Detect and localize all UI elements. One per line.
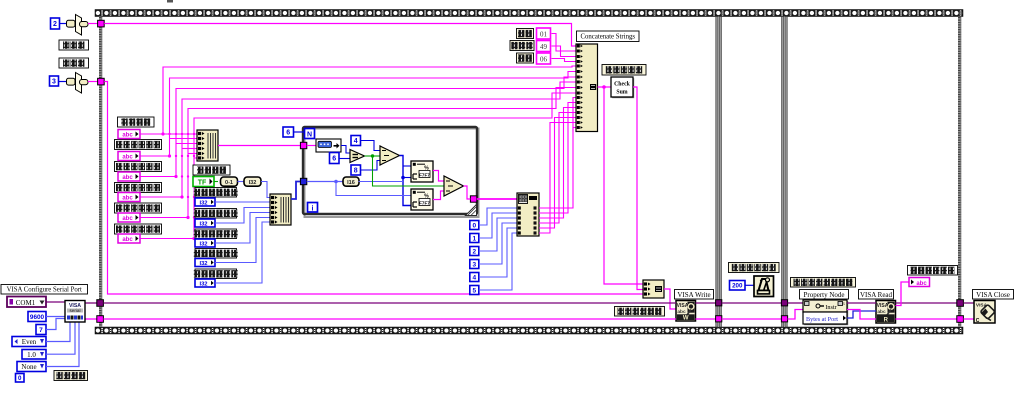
svg-text:abc: abc <box>122 195 133 201</box>
numeric constant 2 <box>51 18 60 29</box>
svg-text:0-1: 0-1 <box>225 180 233 186</box>
svg-text:abc: abc <box>122 154 133 160</box>
wire fan branch 1 to concatenate <box>161 66 576 136</box>
svg-text:3: 3 <box>52 79 56 86</box>
wire abc2 to build-array1 <box>140 139 198 157</box>
loop iteration terminal i <box>308 203 318 213</box>
svg-text:TF: TF <box>198 180 207 187</box>
wire index-array out 5 to concatenate <box>539 118 577 229</box>
wire read string to indicator <box>896 282 910 306</box>
wire start code to concatenate row1 <box>104 24 576 47</box>
numeric constant 3 <box>470 260 479 269</box>
label end code 結束碼 <box>59 58 89 68</box>
numeric constant 0 <box>470 221 479 230</box>
loop tunnel string out <box>470 196 476 202</box>
to I16 conversion <box>343 177 359 186</box>
svg-text:2: 2 <box>472 248 476 255</box>
wire build-array1 to loop tunnel <box>218 145 301 147</box>
svg-text:C: C <box>976 318 980 324</box>
svg-text:VISA Write: VISA Write <box>677 291 710 299</box>
tunnel VISA right edge <box>957 300 964 307</box>
svg-text:2: 2 <box>53 21 57 28</box>
select function 2 <box>444 176 464 196</box>
flat sequence right edge <box>958 17 961 328</box>
svg-text:9600: 9600 <box>30 314 45 321</box>
numeric constant 3 <box>50 76 59 86</box>
wire fan branch 2 to concatenate <box>168 72 577 158</box>
to I32 conversion <box>244 177 261 186</box>
wire VISA read to right tunnel <box>896 302 959 304</box>
wire checksum output down to small concatenate <box>633 87 644 290</box>
boolean to (0,1) conversion <box>221 177 238 186</box>
wire VISA across frame2 <box>722 302 782 304</box>
label 暫存器號碼3 <box>115 183 162 193</box>
svg-text:COM1: COM1 <box>16 299 36 307</box>
label 暫存器資料4 <box>194 249 238 259</box>
label 站號 <box>517 29 534 39</box>
tunnel error left <box>97 316 104 323</box>
concatenate strings node <box>576 44 598 132</box>
numeric control I32 #2 <box>195 219 215 227</box>
tunnel end code <box>98 78 105 85</box>
wire stub to hex upper in1 <box>403 165 411 167</box>
string control abc 1 <box>118 130 140 139</box>
wire fan branch 3 to concatenate <box>174 77 576 178</box>
svg-text:7: 7 <box>39 327 43 334</box>
wire string-length to equals <box>341 146 350 154</box>
wire abc3 to build-array1 <box>140 144 198 177</box>
wire cast2 to tunnel (end code) <box>88 81 98 83</box>
tunnel error divider1 <box>716 316 722 322</box>
wire cast1 to tunnel (start code) <box>88 23 98 25</box>
svg-text:R: R <box>884 317 889 323</box>
string constant 06 <box>537 53 551 64</box>
svg-text:None: None <box>21 363 36 371</box>
tunnel start code <box>98 20 105 27</box>
svg-text:VISA Configure Serial Port: VISA Configure Serial Port <box>7 287 82 294</box>
svg-text:0: 0 <box>472 222 476 229</box>
svg-text:i: i <box>312 205 314 212</box>
select function 1 <box>380 146 400 165</box>
wire I16 output <box>359 181 404 183</box>
numeric control I32 #5 <box>195 279 215 287</box>
svg-text:I16: I16 <box>347 180 355 186</box>
numeric constant 0 (bottom) <box>16 374 25 383</box>
wire bytes-at-port to VISA Read <box>847 311 876 318</box>
wire I32-3 to build-array2 <box>215 213 271 244</box>
svg-text:VISA: VISA <box>877 303 889 309</box>
flat sequence left edge <box>99 17 102 328</box>
wire 6 to equals <box>339 158 350 160</box>
label 暫存器資料5 <box>194 269 238 279</box>
svg-text:abc: abc <box>122 175 133 181</box>
svg-text:I32: I32 <box>199 261 207 267</box>
svg-text:Property Node: Property Node <box>803 291 844 299</box>
tunnel error divider2 <box>781 316 787 322</box>
svg-text:I32: I32 <box>199 281 207 287</box>
wire end code down-and-right to small concatenate <box>104 82 643 295</box>
type cast function 2 <box>67 73 89 94</box>
wire VISA divider2 to property node <box>788 302 803 304</box>
numeric control I32 #4 <box>195 259 215 267</box>
label 寫入命令字串 <box>615 307 665 317</box>
wire constant-2 to cast <box>60 23 68 25</box>
wire error across frame2 <box>722 318 782 320</box>
wire error divider2 to property node <box>788 310 803 320</box>
wire array element to I16 <box>307 180 343 184</box>
wire index-array out 1 to concatenate <box>539 98 577 209</box>
enum constant Even <box>12 337 46 347</box>
wire VISA resource COM1 to configure <box>46 301 65 303</box>
concatenate strings node small <box>643 280 664 298</box>
index array node <box>517 193 539 236</box>
wait ms subVI (metronome) <box>754 276 774 297</box>
svg-text:1: 1 <box>472 235 476 242</box>
svg-text:6: 6 <box>332 156 336 163</box>
svg-text:6: 6 <box>286 130 290 137</box>
wire constant-3 to cast <box>59 81 68 83</box>
svg-text:VISA Read: VISA Read <box>860 291 893 299</box>
wire constant 5 to index array <box>479 233 518 290</box>
enum constant 1.0 <box>22 350 46 360</box>
wire abc1 to build-array1 <box>140 133 198 135</box>
wire index-array out 2 to concatenate <box>539 103 577 214</box>
loop tunnel string array in <box>300 142 306 148</box>
wire abc4 to build-array1 <box>140 149 198 198</box>
numeric constant 4 <box>470 273 479 282</box>
label VISA Configure Serial Port <box>1 285 88 295</box>
svg-text:I32: I32 <box>199 241 207 247</box>
svg-text:4: 4 <box>354 138 358 145</box>
for loop frame <box>303 127 479 217</box>
flat sequence structure top filmstrip border <box>95 10 963 17</box>
svg-text:06: 06 <box>540 56 548 64</box>
wire 8 to select1 <box>361 161 381 171</box>
numeric constant 200 <box>730 281 746 291</box>
wire abc6 to build-array1 <box>140 158 198 239</box>
svg-text:S: S <box>842 302 845 306</box>
wire stub concatenate last row <box>573 128 577 132</box>
wire index-array out 6 to concatenate <box>539 123 577 234</box>
wire constant 3 to index array <box>479 223 518 264</box>
numeric constant 9600 <box>28 312 46 322</box>
VISA Read subVI <box>876 301 896 324</box>
build array node 1 (strings) <box>197 130 218 161</box>
label 暫存器號碼2 <box>115 162 162 172</box>
loop count terminal N <box>305 129 315 139</box>
numeric control I32 #1 <box>195 198 215 206</box>
wire error read to right tunnel <box>896 318 959 320</box>
label 暫存器資料2 <box>194 209 238 219</box>
boolean control TF <box>193 177 214 187</box>
label 暫存器號碼5 <box>115 224 162 234</box>
wire I32-2 to build-array2 <box>215 208 271 224</box>
wire constant 1 to index array <box>479 213 518 238</box>
wire index-array out 3 to concatenate <box>539 108 577 219</box>
wire stub to hex upper in2 <box>403 177 411 179</box>
svg-text:Bytes at Port: Bytes at Port <box>806 316 838 323</box>
wire concatenate output to checksum <box>598 85 612 89</box>
label 偵誤碼計算 <box>602 65 646 76</box>
number to hex string lower <box>411 189 433 210</box>
numeric constant 7 <box>36 325 46 335</box>
svg-text:5: 5 <box>472 287 476 294</box>
svg-text:abc: abc <box>677 309 686 315</box>
wire VISA resource across frame1 <box>103 302 676 304</box>
svg-text:VISA Close: VISA Close <box>976 291 1010 299</box>
wire index-array out 4 to concatenate <box>539 113 577 224</box>
wire tunnel to string-length <box>307 145 316 147</box>
tunnel error right edge <box>957 316 964 323</box>
sequence frame divider 2 <box>782 17 788 328</box>
svg-text:Concatenate Strings: Concatenate Strings <box>580 34 635 41</box>
wire abc5 to build-array1 <box>140 154 198 218</box>
svg-text:I32: I32 <box>199 200 207 206</box>
wire Even to configure <box>46 322 70 342</box>
numeric constant 8 <box>351 165 361 175</box>
label VISA Write <box>675 290 714 300</box>
wire 4 to select1 <box>361 141 381 151</box>
svg-text:Check: Check <box>614 82 631 88</box>
sequence frame divider 1 <box>716 17 722 328</box>
wire 7 to configure <box>46 319 65 330</box>
wire VISA resource write-to-divider <box>696 302 717 304</box>
wire 6 to N <box>294 131 305 133</box>
wire constant 0 to index array <box>479 208 518 225</box>
wire loop output to index array <box>477 198 518 200</box>
svg-text:Sum: Sum <box>616 90 627 96</box>
numeric constant 1 <box>470 234 479 243</box>
wire to-I32 to build-array2 row1 <box>261 182 271 198</box>
wire 9600 to configure <box>46 316 65 318</box>
tunnel VISA divider1 <box>716 300 722 306</box>
wire fan branch 6 to concatenate <box>192 93 576 240</box>
wire bool01 to to-I32 <box>238 181 245 183</box>
svg-text:abc: abc <box>122 216 133 222</box>
enum constant None <box>17 362 46 372</box>
label 暫存器資料1 <box>194 188 238 198</box>
label 接點狀態 <box>193 165 230 175</box>
label PLC回應字串 <box>908 266 958 276</box>
wire fan branch 5 to concatenate <box>186 88 576 220</box>
string control abc 6 <box>118 234 140 243</box>
svg-text:F7F7: F7F7 <box>419 200 430 205</box>
wire equals to select (boolean) <box>365 154 381 157</box>
loop resize corner <box>466 205 477 216</box>
VISA Configure Serial Port subVI <box>65 301 85 323</box>
svg-text:VISA: VISA <box>677 303 689 309</box>
string control abc 4 <box>118 193 140 202</box>
wire select1 output down <box>400 156 412 206</box>
svg-text:abc: abc <box>916 281 927 287</box>
string control abc 3 <box>118 172 140 181</box>
wire VISA to close <box>963 302 974 304</box>
svg-text:200: 200 <box>732 282 743 289</box>
wire I32-4 to build-array2 <box>215 218 271 263</box>
label VISA Read <box>859 290 894 300</box>
wire constant 2 to index array <box>479 218 518 251</box>
label 通訊參數 <box>54 371 88 381</box>
svg-text:abc: abc <box>122 237 133 243</box>
property node <box>803 300 848 325</box>
type cast function 1 <box>67 15 89 36</box>
wire small concatenate to VISA Write <box>664 289 676 309</box>
svg-text:W: W <box>683 315 689 321</box>
svg-text:F7F7: F7F7 <box>419 172 430 177</box>
string length function <box>316 139 341 152</box>
label Property Node <box>800 290 849 300</box>
svg-text:abc: abc <box>122 132 133 138</box>
svg-text:Instr: Instr <box>825 304 836 311</box>
label 讀取PLC回傳字數 <box>791 278 856 288</box>
label 暫存器號碼4 <box>115 203 162 213</box>
VISA resource control COM1 <box>7 297 46 308</box>
wire error to close <box>963 318 974 320</box>
build array node 2 (numbers) <box>270 194 291 225</box>
label start code 起始碼 <box>59 40 89 50</box>
wire error across frame1 <box>103 318 676 320</box>
string constant 01 <box>537 28 551 39</box>
wire 01 to concatenate <box>552 34 577 52</box>
wire None to configure <box>46 322 79 367</box>
wire 200 to wait <box>745 284 754 286</box>
svg-text:abc: abc <box>877 309 886 315</box>
wire TF to bool-to-01 <box>214 181 218 183</box>
numeric control I32 #3 <box>195 239 215 247</box>
numeric constant 5 <box>470 286 479 295</box>
label VISA Close <box>973 290 1014 300</box>
VISA Close subVI <box>974 301 995 324</box>
string indicator abc (PLC response) <box>909 278 930 287</box>
svg-text:Even: Even <box>22 338 37 346</box>
stray label fragment top <box>167 0 173 3</box>
VISA Write subVI <box>676 301 696 322</box>
svg-text:1.0: 1.0 <box>27 351 36 359</box>
svg-text:01: 01 <box>540 31 548 39</box>
wire hex upper to select2 <box>433 171 444 182</box>
wire I32-5 to build-array2 <box>215 222 271 283</box>
wire constant 4 to index array <box>479 228 518 277</box>
label PLC延遲時間 <box>729 263 780 273</box>
label 接點號碼 <box>118 117 155 127</box>
wire select2 to out tunnel <box>464 186 471 199</box>
wire boolean to select2 <box>373 156 445 186</box>
string control abc 2 <box>118 152 140 161</box>
string control abc 5 <box>118 213 140 222</box>
label 暫存器資料3 <box>194 229 238 239</box>
label 個數 <box>517 53 534 63</box>
numeric constant 4 <box>351 136 361 146</box>
svg-text:3: 3 <box>472 261 476 268</box>
svg-text:4: 4 <box>472 274 476 281</box>
svg-text:N: N <box>307 132 312 139</box>
svg-text:49: 49 <box>540 43 548 51</box>
wire error write-to-divider <box>696 318 717 320</box>
wire fan branch 4 to concatenate <box>180 82 576 199</box>
numeric constant 6 (compare) <box>330 153 340 164</box>
wire 1.0 to configure <box>46 322 75 354</box>
tunnel VISA divider2 <box>781 300 787 306</box>
flat sequence structure bottom filmstrip border <box>95 327 963 334</box>
wire VISA property to read <box>847 302 876 304</box>
svg-text:8: 8 <box>354 168 358 175</box>
equal? function <box>350 150 365 163</box>
wire hex lower to select2 <box>433 191 444 200</box>
loop tunnel number array in <box>300 178 306 184</box>
wire 06 to concatenate <box>552 59 577 62</box>
wire 49 to concatenate <box>552 46 577 57</box>
svg-text:I32: I32 <box>199 221 207 227</box>
check sum subVI <box>611 77 634 98</box>
label 命令碼 <box>510 41 534 51</box>
tunnel VISA resource left <box>97 300 104 307</box>
wire VISA resource configure to frame <box>85 302 97 304</box>
svg-text:0: 0 <box>18 375 22 382</box>
wire I32-1 to build-array2 <box>215 201 271 203</box>
wire command string down to small concatenate <box>604 87 644 284</box>
numeric constant 2 <box>470 247 479 256</box>
label 暫存器號碼1 <box>115 140 162 150</box>
number to hex string upper <box>411 161 433 182</box>
label Concatenate Strings <box>577 31 640 42</box>
wire build-array2 to loop tunnel <box>291 182 301 200</box>
wire branch to hex lower in1 <box>336 182 411 196</box>
svg-text:serial: serial <box>70 308 81 313</box>
numeric constant 6 (count) <box>283 127 294 137</box>
svg-text:I32: I32 <box>249 180 257 186</box>
string constant 49 <box>537 41 551 52</box>
wire error property to read <box>847 310 876 320</box>
wire error configure to frame <box>85 318 97 320</box>
